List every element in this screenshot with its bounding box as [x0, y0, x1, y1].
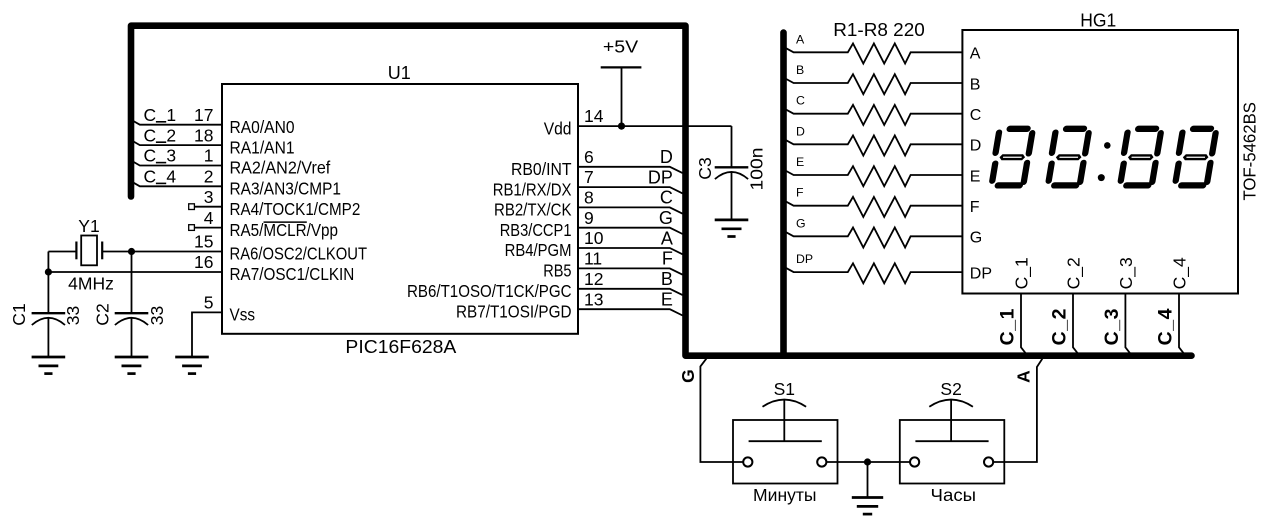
- svg-text:DP: DP: [796, 252, 813, 266]
- svg-text:C: C: [144, 105, 157, 125]
- svg-text:A: A: [970, 46, 981, 63]
- svg-text:33: 33: [63, 306, 83, 325]
- svg-text:B: B: [970, 76, 981, 93]
- svg-text:RA7/OSC1/CLKIN: RA7/OSC1/CLKIN: [230, 264, 355, 284]
- svg-text:14: 14: [584, 106, 604, 126]
- svg-text:12: 12: [584, 269, 603, 289]
- svg-text:4: 4: [204, 208, 214, 228]
- svg-text:D: D: [660, 147, 673, 167]
- svg-text:4: 4: [166, 167, 176, 187]
- svg-text:33: 33: [147, 306, 167, 325]
- svg-text:DP: DP: [970, 265, 992, 282]
- svg-text:13: 13: [584, 289, 603, 309]
- svg-text:G: G: [796, 216, 806, 230]
- svg-text:F: F: [796, 186, 804, 200]
- svg-text:RA2/AN2/Vref: RA2/AN2/Vref: [230, 158, 331, 178]
- svg-text:RB3/CCP1: RB3/CCP1: [500, 220, 572, 240]
- svg-text:+5V: +5V: [603, 36, 639, 56]
- svg-text:C_1: C_1: [1012, 257, 1033, 289]
- svg-text:RA1/AN1: RA1/AN1: [230, 137, 295, 157]
- svg-text:2: 2: [166, 125, 176, 145]
- svg-text:C_3: C_3: [1101, 308, 1123, 345]
- svg-text:S2: S2: [940, 379, 961, 399]
- svg-text:10: 10: [584, 228, 604, 248]
- svg-text:E: E: [796, 155, 804, 169]
- svg-text:C: C: [970, 107, 982, 124]
- svg-text:A: A: [796, 32, 805, 46]
- svg-text:4MHz: 4MHz: [68, 274, 114, 294]
- svg-text:7: 7: [584, 167, 594, 187]
- svg-text:9: 9: [584, 208, 594, 228]
- svg-text:C1: C1: [9, 303, 29, 325]
- svg-text:100n: 100n: [747, 148, 767, 191]
- svg-text:G: G: [678, 369, 698, 383]
- svg-text:RB6/T1OSO/T1CK/PGC: RB6/T1OSO/T1CK/PGC: [407, 281, 572, 301]
- svg-text:1: 1: [166, 105, 176, 125]
- svg-text:R1-R8 220: R1-R8 220: [833, 20, 925, 40]
- svg-text:PIC16F628A: PIC16F628A: [345, 336, 457, 357]
- svg-text:A: A: [1013, 370, 1033, 383]
- svg-text:C: C: [144, 146, 157, 166]
- svg-text:Минуты: Минуты: [753, 485, 817, 505]
- svg-text:RA0/AN0: RA0/AN0: [230, 117, 295, 137]
- svg-text:D: D: [796, 124, 805, 138]
- svg-text:C_3: C_3: [1116, 257, 1137, 289]
- svg-text:HG1: HG1: [1080, 9, 1116, 30]
- svg-text:RA4/TOCK1/CMP2: RA4/TOCK1/CMP2: [230, 199, 361, 219]
- svg-text:8: 8: [584, 188, 594, 208]
- svg-text:15: 15: [194, 232, 213, 252]
- svg-text:G: G: [659, 208, 673, 228]
- svg-text:Vss: Vss: [230, 305, 256, 325]
- svg-text:3: 3: [204, 187, 214, 207]
- svg-text:C: C: [796, 94, 805, 108]
- svg-text:C_4: C_4: [1170, 257, 1191, 289]
- svg-text:17: 17: [194, 105, 213, 125]
- svg-text:A: A: [661, 228, 673, 248]
- svg-text:C_2: C_2: [1064, 257, 1085, 289]
- svg-text:Y1: Y1: [78, 216, 99, 236]
- svg-text:Часы: Часы: [931, 485, 977, 505]
- svg-text:18: 18: [194, 125, 213, 145]
- svg-text:RB5: RB5: [543, 261, 571, 281]
- svg-text:S1: S1: [774, 379, 795, 399]
- svg-text:11: 11: [584, 249, 602, 269]
- svg-text:C_4: C_4: [1155, 308, 1177, 345]
- svg-text:RB7/T1OSI/PGD: RB7/T1OSI/PGD: [456, 301, 572, 321]
- svg-text:DP: DP: [648, 167, 673, 187]
- svg-text:16: 16: [194, 252, 213, 272]
- svg-text:RB2/TX/CK: RB2/TX/CK: [494, 200, 572, 220]
- svg-text:C3: C3: [695, 157, 715, 179]
- svg-text:C_2: C_2: [1049, 308, 1071, 345]
- svg-text:3: 3: [166, 146, 176, 166]
- svg-text:F: F: [662, 249, 673, 269]
- svg-text:B: B: [661, 269, 673, 289]
- svg-text:2: 2: [204, 167, 214, 187]
- svg-text:TOF-5462BS: TOF-5462BS: [1240, 102, 1260, 201]
- svg-text:5: 5: [204, 293, 214, 313]
- svg-text:E: E: [661, 290, 673, 310]
- svg-text:6: 6: [584, 147, 594, 167]
- svg-text:E: E: [970, 168, 981, 185]
- svg-text:RA3/AN3/CMP1: RA3/AN3/CMP1: [230, 179, 342, 199]
- svg-text:RB4/PGM: RB4/PGM: [505, 240, 572, 260]
- svg-text:RB1/RX/DX: RB1/RX/DX: [493, 179, 572, 199]
- svg-text:RB0/INT: RB0/INT: [511, 159, 572, 179]
- svg-text:F: F: [970, 199, 980, 216]
- svg-text:D: D: [970, 138, 982, 155]
- svg-text:1: 1: [204, 146, 214, 166]
- svg-text:C_1: C_1: [997, 308, 1019, 345]
- svg-text:C: C: [144, 125, 157, 145]
- svg-text:C2: C2: [93, 303, 113, 325]
- svg-text:C: C: [144, 167, 157, 187]
- svg-text:U1: U1: [388, 63, 411, 83]
- svg-text:C: C: [660, 188, 673, 208]
- svg-text:B: B: [796, 63, 804, 77]
- svg-text:Vdd: Vdd: [544, 118, 572, 138]
- svg-text:RA6/OSC2/CLKOUT: RA6/OSC2/CLKOUT: [230, 244, 368, 264]
- svg-text:G: G: [970, 230, 982, 247]
